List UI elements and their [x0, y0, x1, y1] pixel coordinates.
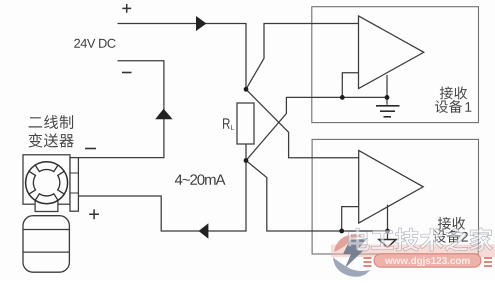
transmitter head housing — [23, 155, 70, 204]
wire: U2 ground pin from triangle to rail — [387, 205, 389, 240]
op-amp U2 triangle — [359, 151, 424, 224]
transmitter terminal block — [70, 158, 78, 212]
arrow current direction right on top rail — [196, 16, 207, 31]
watermark url pill — [364, 254, 493, 267]
label minus at transmitter terminal — [85, 148, 96, 150]
wire: RL top node diagonal to op-amp U2 plus input — [246, 89, 359, 157]
label plus at 24V source — [122, 4, 131, 13]
resistor RL body — [237, 103, 254, 144]
receiver box 1 outline — [312, 7, 479, 123]
label receiver device1 line2 设备1 — [435, 100, 448, 113]
wire: loop return RL bottom to transmitter plus terminal — [78, 144, 246, 231]
watermark logo swirl — [333, 235, 370, 277]
transmitter body rounded — [23, 216, 69, 273]
label receiver device2 line1 接收 — [438, 217, 451, 230]
receiver box 2 outline — [312, 139, 478, 254]
wire: U1 ground pin from triangle to rail — [386, 75, 388, 105]
node: U2 feedback junction dot — [339, 229, 344, 234]
transmitter dial inner sectors — [29, 165, 64, 200]
node: U1 feedback junction dot — [340, 95, 345, 100]
label receiver device2 line2 设备2 — [433, 230, 446, 243]
label two-wire transmitter line2 变送器 — [29, 133, 43, 147]
label minus at 24V source — [122, 72, 132, 74]
watermark pink highlight band — [331, 245, 495, 258]
value label RL — [223, 118, 230, 128]
wire: 24V+ top rail to RL top corner — [118, 24, 247, 90]
node: U1 ground junction dot — [385, 95, 390, 100]
op-amp U1 triangle — [359, 16, 424, 89]
arrow current direction left on bottom return wire — [199, 223, 209, 239]
node: RL bottom junction dot — [244, 158, 249, 163]
value label 4~20mA — [175, 174, 183, 184]
transmitter dial outer circle — [26, 162, 68, 204]
label two-wire transmitter line1 二线制 — [29, 117, 42, 127]
wire: RL bottom node diagonal up to box1 ground rail — [246, 97, 387, 160]
value label 24V DC — [74, 39, 80, 48]
watermark text 电工技术之家 — [348, 228, 369, 251]
node: U2 ground junction dot — [385, 229, 390, 234]
wire: 24V- down to transmitter minus terminal — [78, 61, 164, 158]
label plus at transmitter terminal — [89, 209, 99, 219]
ground symbol triangle in box2 — [379, 240, 396, 248]
wire: U2 feedback from ground rail to inverting input — [342, 207, 359, 231]
label receiver device1 line1 接收 — [440, 86, 453, 99]
wire: U1 feedback from ground rail to inverting input — [342, 73, 358, 98]
transmitter neck — [35, 200, 58, 212]
ground symbol earth in box1 — [376, 106, 400, 117]
arrow current direction up on 24V- vertical — [155, 109, 172, 119]
node: RL top junction dot — [244, 87, 249, 92]
wire: RL bottom node diagonal down to box2 ground rail — [246, 161, 388, 232]
wire: RL top node to op-amp U1 plus input — [246, 24, 358, 90]
